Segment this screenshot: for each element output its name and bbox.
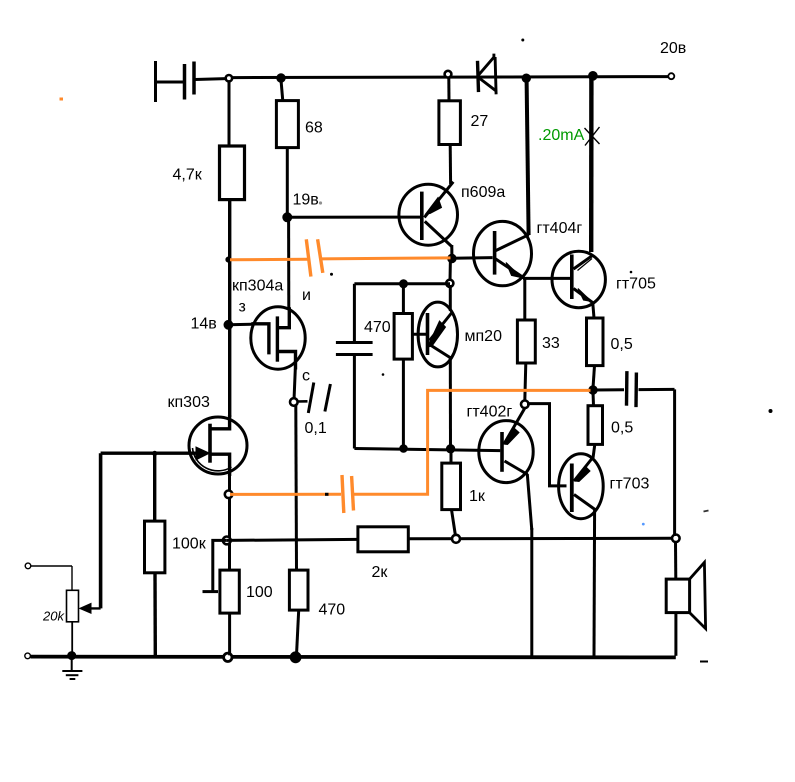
svg-text:з: з	[239, 299, 246, 316]
svg-text:27: 27	[471, 113, 489, 130]
node 470/rail junction blob	[290, 652, 301, 663]
svg-text:20k: 20k	[42, 609, 65, 624]
svg-text:и: и	[302, 287, 311, 304]
resistor R 100 with tap	[203, 540, 240, 655]
resistor R 27	[439, 77, 461, 184]
svg-text:кп304а: кп304а	[232, 278, 283, 295]
svg-text:470: 470	[319, 602, 346, 619]
node pot/rail	[68, 652, 76, 660]
wire 14v node to kp304a gate	[228, 323, 251, 327]
node open rail/27	[445, 71, 452, 78]
svg-text:0,1: 0,1	[305, 420, 327, 437]
speck grey dot near 19v	[319, 201, 322, 204]
diode D1 on rail	[478, 54, 497, 95]
resistor R 470 (lower)	[289, 570, 308, 655]
node open 2k/1k junction	[452, 535, 460, 543]
node open 100-ohm net	[223, 537, 231, 545]
wire gt404g bottom down to 33	[523, 278, 526, 320]
transistor VT gt404g	[474, 221, 532, 285]
svg-text:19в: 19в	[293, 192, 319, 209]
wire node down to RC top	[449, 260, 452, 281]
resistor R 1k	[442, 449, 461, 536]
speck orange	[60, 98, 64, 101]
potentiometer 20k	[25, 563, 78, 654]
terminal 20v (open circle)	[668, 73, 674, 79]
wiper wire of 20k pot	[80, 453, 101, 613]
node junction rail/gt705 collector line	[589, 72, 598, 81]
node open at RC-top / mp20 emitter	[446, 280, 453, 287]
speck dash bottom right	[700, 661, 708, 663]
svg-text:гт705: гт705	[616, 276, 656, 293]
wire orange lower (feedback)	[230, 390, 591, 513]
node RC bottom / 470	[400, 445, 408, 453]
node junction rail/68	[277, 74, 285, 82]
svg-text:14в: 14в	[191, 316, 217, 333]
wire RC block bottom	[354, 449, 500, 451]
svg-text:п609а: п609а	[461, 184, 505, 201]
node open gt402g emitter	[521, 401, 529, 409]
svg-text:68: 68	[305, 120, 323, 137]
resistor R 68	[276, 80, 298, 215]
resistor R 100k	[145, 451, 165, 655]
svg-text:2к: 2к	[372, 564, 389, 581]
speck dot top center	[521, 39, 524, 42]
svg-text:гт703: гт703	[610, 476, 650, 493]
wire gt402g emitter node to gt703 base	[527, 404, 567, 486]
svg-text:100: 100	[246, 584, 273, 601]
resistor R 2k (horizontal)	[358, 527, 408, 552]
svg-text:33: 33	[542, 335, 560, 352]
capacitor C 0,1	[297, 383, 330, 414]
resistor R 4,7k	[220, 81, 245, 417]
wire black stub at lower orange wire	[325, 493, 329, 496]
svg-text:1к: 1к	[469, 488, 486, 505]
node 14v junction	[224, 320, 233, 329]
node open at speaker branch	[672, 535, 680, 543]
wire kp303 source line down	[228, 475, 231, 571]
resistor R 470 (upper)	[394, 284, 412, 449]
svg-text:0,5: 0,5	[611, 420, 633, 437]
wire 19v node down to kp304a	[287, 220, 290, 308]
capacitor C with resistor 470 (RC block) top wire	[354, 282, 450, 285]
svg-text:с: с	[302, 368, 310, 385]
resistor R 0,5 (lower)	[588, 392, 603, 458]
resistor R 0,5 (upper)	[587, 318, 604, 388]
svg-text:20в: 20в	[660, 40, 686, 57]
node 19v junction	[283, 213, 292, 222]
resistor R 33	[517, 320, 535, 401]
node open orange tap (lower left)	[225, 491, 233, 499]
node RC top / 470	[400, 280, 408, 288]
svg-text:кп303: кп303	[168, 394, 210, 411]
svg-text:.20mA: .20mA	[538, 127, 585, 144]
wire gt705 collector to rail	[589, 78, 594, 252]
wire top supply rail	[232, 77, 669, 78]
node RC bottom / mp20 collector / 1k	[446, 445, 454, 453]
transistor VT kp304a	[251, 307, 305, 400]
speck blue dot	[642, 523, 645, 526]
transistor VT mp20	[411, 285, 457, 448]
speaker	[666, 562, 705, 628]
speck dot right	[769, 409, 773, 413]
svg-text:4,7к: 4,7к	[173, 167, 203, 184]
node output mid junction	[589, 386, 597, 394]
speck dot below orange cap	[330, 273, 333, 276]
svg-text:гт402г: гт402г	[467, 404, 513, 421]
capacitor C electrolytic in RC block	[336, 284, 373, 449]
wire gt402g collector down to rail	[530, 528, 533, 656]
wire 19v node to p609a base	[287, 216, 421, 219]
node open 100/kp303 at rail	[224, 653, 232, 661]
svg-text:гт404г: гт404г	[537, 220, 583, 237]
X mark at 20mA	[585, 127, 600, 146]
ground symbol	[62, 657, 82, 679]
wire kp304a drain line down	[294, 406, 298, 571]
wire speaker branch vertical	[675, 389, 676, 655]
transistor Q p609a	[399, 182, 458, 257]
transistor VT gt703	[559, 454, 604, 656]
wire node to output cap	[593, 388, 624, 391]
capacitor C output	[627, 371, 675, 407]
gate arrow of kp303	[196, 447, 210, 460]
node open drain kp304a / cap 0,1	[290, 398, 298, 406]
wire feedback net y=540	[227, 539, 358, 540]
speck dot above gt705 label	[630, 271, 633, 274]
terminal input lower (open circle)	[25, 653, 31, 659]
ground bottom rail	[31, 655, 676, 660]
svg-text:470: 470	[364, 319, 391, 336]
transistor VT gt402g	[479, 409, 533, 531]
svg-text:0,5: 0,5	[611, 336, 633, 353]
speck grey mark right side	[704, 511, 709, 512]
node open at input cap / 4.7k junction	[226, 75, 232, 81]
transistor VT gt705	[552, 251, 605, 318]
capacitor C_in (input coupling, top-left)	[156, 61, 226, 102]
wire collector node to gt404g base	[452, 256, 493, 260]
svg-text:мп20: мп20	[465, 328, 503, 345]
wire gt404g emitter to rail	[527, 80, 529, 235]
wire gate of kp303 (from pot wiper riser)	[101, 452, 206, 455]
speck dot near 470	[382, 373, 385, 376]
wire gt404g bottom to gt705 base	[523, 277, 570, 280]
svg-text:100к: 100к	[172, 536, 207, 553]
wire 2k to output net	[408, 537, 672, 541]
node junction rail/gt404g emitter line	[522, 74, 530, 82]
transistor VT kp303	[189, 415, 247, 476]
node small at orange wire tap (left)	[226, 257, 231, 262]
node p609a collector / orange / gt404g base	[448, 254, 456, 262]
wire orange upper (base injection)	[230, 239, 451, 276]
